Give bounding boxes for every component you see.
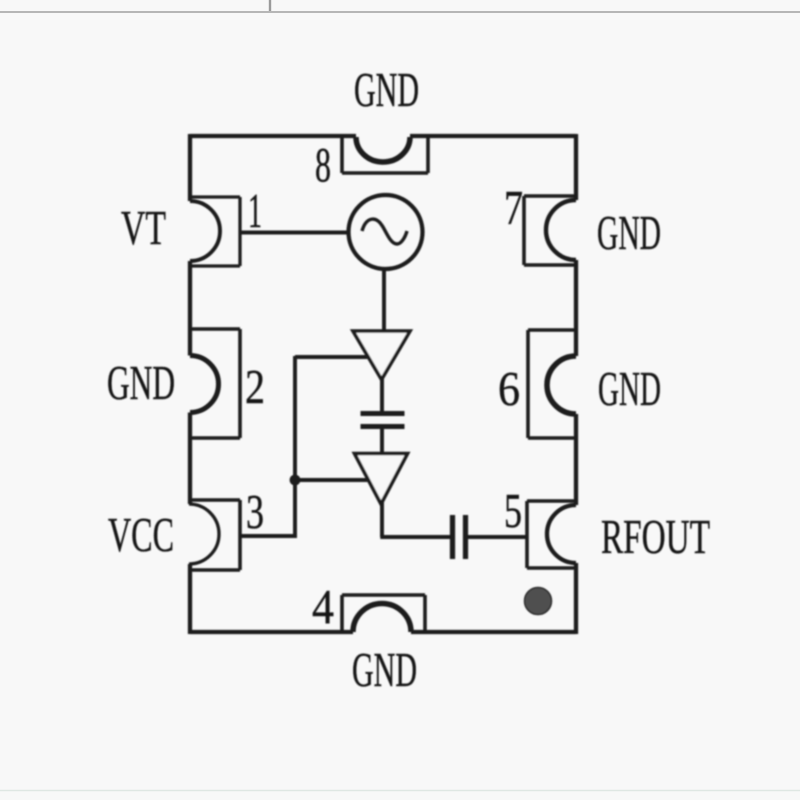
- oscillator OSC sine wave: [362, 219, 407, 244]
- pin 4 pad rectangle: [342, 595, 425, 632]
- svg-text:2: 2: [245, 359, 265, 414]
- svg-text:8: 8: [315, 137, 331, 192]
- pin 1 castellation notch: [190, 201, 220, 261]
- pin 6 pad rectangle: [528, 330, 576, 438]
- amplifier A2 (buffer, pointing down): [355, 454, 408, 505]
- amplifier A1 (buffer, pointing down): [353, 331, 410, 380]
- svg-text:VT: VT: [121, 200, 166, 255]
- wire A2 output down: [380, 502, 384, 537]
- svg-text:7: 7: [504, 180, 523, 235]
- pin 5 pad rectangle: [527, 501, 576, 568]
- pin 2 pad rectangle: [190, 329, 240, 438]
- pin 2 castellation notch: [190, 356, 219, 413]
- pin 7 castellation notch: [546, 200, 576, 260]
- svg-text:3: 3: [246, 484, 264, 539]
- svg-text:4: 4: [312, 579, 334, 634]
- pin 8 pad rectangle: [342, 136, 428, 173]
- supply rail vertical wire: [293, 356, 297, 538]
- pin 1 pad rectangle: [190, 197, 240, 266]
- IC package outline left edge: [188, 134, 192, 634]
- svg-text:GND: GND: [354, 62, 419, 117]
- wire A1 output to capacitor C1: [380, 378, 384, 414]
- wire oscillator to amplifier A1 input: [382, 269, 386, 332]
- IC package outline top edge: [190, 134, 576, 138]
- wire C1 to amplifier A2 input: [380, 426, 384, 454]
- capacitor C1 plates: [361, 414, 405, 427]
- svg-text:GND: GND: [352, 642, 417, 697]
- pin 5 castellation notch: [547, 505, 576, 563]
- pin 1 orientation dot: [525, 588, 552, 615]
- pin 6 castellation notch: [547, 356, 576, 414]
- wire pin1 VT to oscillator: [240, 231, 349, 235]
- svg-text:1: 1: [248, 183, 262, 238]
- svg-text:VCC: VCC: [108, 507, 174, 562]
- wire pin3 VCC to supply rail: [240, 534, 297, 538]
- pin 7 pad rectangle: [524, 196, 576, 265]
- oscillator OSC circle: [349, 195, 423, 269]
- pin 3 pad rectangle: [190, 500, 240, 570]
- svg-text:GND: GND: [107, 355, 175, 410]
- wire A2 output to coupling capacitor C2: [380, 535, 450, 539]
- pin 8 castellation notch: [356, 137, 410, 162]
- svg-text:GND: GND: [597, 205, 661, 260]
- wire C2 to pin 5 RFOUT: [467, 535, 527, 539]
- svg-text:RFOUT: RFOUT: [601, 509, 710, 564]
- pin 3 castellation notch: [189, 504, 219, 564]
- IC package outline bottom edge: [190, 630, 576, 634]
- svg-text:5: 5: [504, 483, 522, 538]
- wire rail to A2 supply: [295, 478, 369, 482]
- svg-text:6: 6: [498, 361, 520, 416]
- IC package outline right edge: [574, 134, 578, 634]
- wire rail to A1 supply: [295, 355, 369, 359]
- junction node on supply rail: [290, 475, 301, 486]
- capacitor C2 plates: [453, 515, 466, 559]
- svg-text:GND: GND: [598, 361, 661, 416]
- pin 4 castellation notch: [353, 604, 411, 633]
